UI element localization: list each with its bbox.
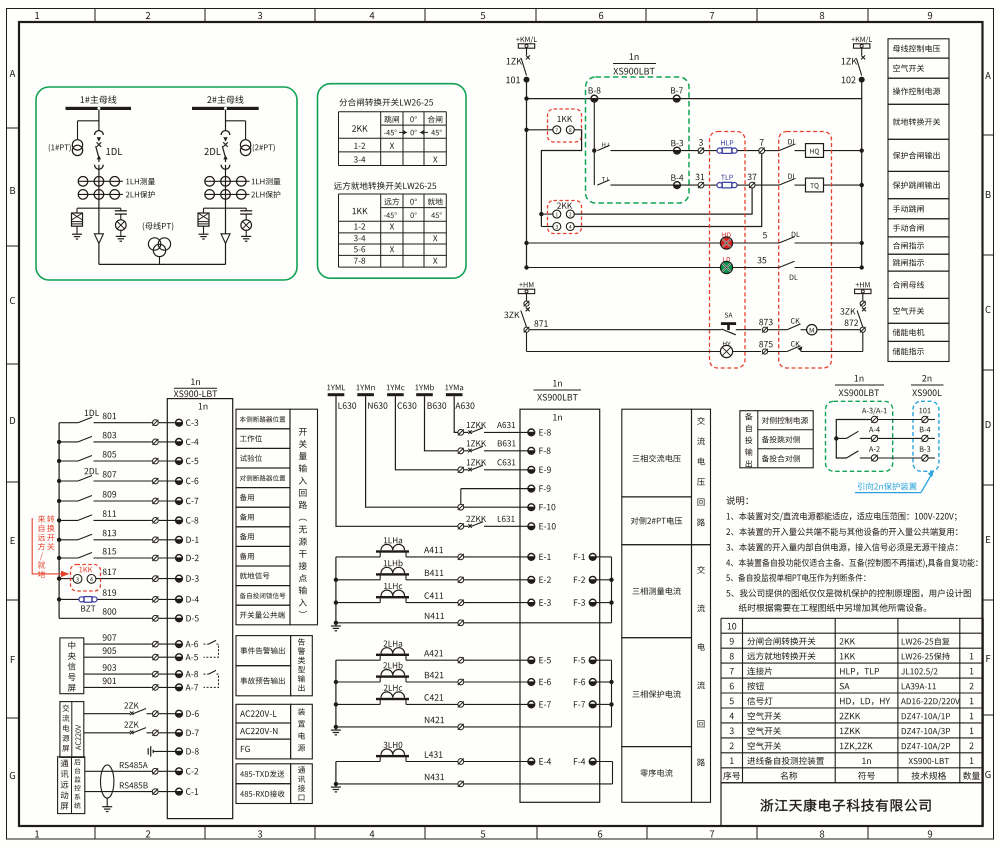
device header 2n XS900L <box>922 375 931 382</box>
row F-9 (N630 branch) <box>461 488 528 490</box>
CT 1LHa <box>384 537 402 543</box>
node 3 <box>680 150 698 152</box>
AC circuit label boxes <box>622 409 692 497</box>
comm row RS485B -> C-1 <box>85 791 153 793</box>
neutral N411 <box>336 622 458 624</box>
close indicator lamp HD (red) <box>527 242 721 244</box>
node 37 <box>737 184 749 186</box>
top rail <box>527 98 862 100</box>
node 872 <box>845 319 858 326</box>
link TLP <box>704 184 717 186</box>
communication panel box <box>58 757 85 814</box>
shield ellipse and ground <box>101 765 114 798</box>
DI row 800 -> D-5 <box>103 608 117 615</box>
terminal B-4 <box>671 175 683 181</box>
drawout breaker 1DL <box>95 131 104 135</box>
F-side returns group2 <box>574 657 585 663</box>
power supply label boxes <box>236 704 291 723</box>
DI row 805 -> C-5 <box>103 451 116 458</box>
terminal B-7 <box>671 87 683 93</box>
MCB 1ZKK row B631 <box>425 396 458 451</box>
F-side returns group1 <box>574 554 585 560</box>
CT 2LHb <box>383 662 402 669</box>
bottom ruler <box>94 826 96 839</box>
wire 2KK pin4 to node 7 <box>574 154 761 227</box>
feeder arrow to load <box>221 234 230 244</box>
terminal box XS900-LBT <box>167 399 232 819</box>
DI row 817 -> D-3 <box>103 569 117 576</box>
link HLP <box>704 150 717 152</box>
row A-2 to B-3 <box>869 446 880 452</box>
ATS contacts (green dashed) <box>826 401 893 471</box>
fuse link +KM/L <box>851 36 872 43</box>
PT bar 1YMa <box>445 385 463 391</box>
PT branch <box>78 120 99 122</box>
comm port label boxes <box>236 764 291 784</box>
table 2KK <box>339 111 447 113</box>
terminal B-8 <box>589 87 601 93</box>
motor M <box>807 325 817 335</box>
ATS output label box <box>740 411 813 468</box>
red dashed group: links and lamps <box>710 132 746 369</box>
feeder arrow to load <box>94 234 103 244</box>
terminal B-3 <box>671 140 683 146</box>
arrester + live-display branch <box>77 207 121 209</box>
notes <box>726 496 747 505</box>
left rail group1 <box>335 557 337 623</box>
BOM row 7 <box>730 668 734 674</box>
charge indicator HY row <box>527 351 721 353</box>
node 7 <box>737 150 759 152</box>
SA row wire <box>529 329 721 331</box>
PT bar 1YML <box>327 385 345 391</box>
green box: transfer switch tables <box>318 84 467 279</box>
BOM row 4 <box>729 713 733 719</box>
comm row RS485A -> C-2 <box>85 770 153 772</box>
fuse link +HM <box>856 282 870 287</box>
central signal panel box <box>60 638 84 694</box>
red dashed group: DL aux contacts and coils <box>779 132 832 369</box>
dashed output contact A-8/A-7 <box>204 673 209 675</box>
top ruler <box>94 9 96 23</box>
signal row 907 -> A-6 <box>84 643 152 645</box>
AC supply row 2ZK -> D-7 <box>84 732 130 734</box>
node 875 <box>759 341 772 348</box>
left ruler <box>7 127 20 129</box>
row A-3/A-1 to 101 <box>862 407 887 414</box>
remote/local switch 1KK contacts 3-4 <box>71 565 101 592</box>
CT 2LHc <box>384 685 403 691</box>
feeder wire <box>225 110 227 131</box>
BOM row 6 <box>730 683 734 690</box>
fuse link +HM <box>519 282 533 287</box>
drawout breaker 2DL <box>221 131 230 135</box>
trip indicator lamp LD (green) <box>527 267 721 269</box>
neutral N421 <box>336 726 458 728</box>
contact CK (charged) <box>791 318 800 323</box>
bus bar 1#主母线 <box>81 95 117 103</box>
feeder wire <box>98 110 100 131</box>
pushbutton SA <box>725 313 733 318</box>
bus bar 2#主母线 <box>207 95 243 103</box>
DI row 811 -> C-8 <box>103 510 116 517</box>
right ruler <box>983 134 994 136</box>
signal row 905 -> A-5 <box>84 656 152 658</box>
DI row 807 -> C-6 <box>103 471 117 478</box>
BOM row 5 <box>730 698 734 705</box>
wire 1KK pin8 to 2KK common <box>541 130 581 227</box>
table 1KK <box>339 193 447 195</box>
BOM row 9 <box>730 638 734 645</box>
row E-10 (L630 via 2ZKK) <box>336 396 458 526</box>
table title LW26-25 remote/local <box>334 182 436 190</box>
row A-4 to B-4 <box>869 427 880 432</box>
AC power panel box <box>60 702 84 758</box>
MCB 1ZKK row C631 <box>395 396 457 470</box>
capacitor + lamp <box>245 208 247 211</box>
device header 1n XS900-LBT <box>191 379 200 385</box>
node 31 <box>680 184 698 186</box>
right bus <box>861 82 863 268</box>
contact HJ (close relay) <box>602 143 608 147</box>
company title block <box>721 783 983 826</box>
DI row 813 -> D-1 <box>103 530 116 537</box>
node 873 <box>759 319 772 326</box>
relay coil HQ <box>806 144 824 158</box>
BOM row 1 <box>730 758 734 764</box>
arrester + live-display branch <box>204 207 247 209</box>
DI row 815 -> D-2 <box>103 548 116 555</box>
left rail <box>526 82 528 268</box>
capacitor + lamp <box>120 208 122 211</box>
arrows in header <box>399 130 406 134</box>
contact CK (NC with flag) <box>791 341 800 346</box>
PT bar 1YMb <box>415 384 434 390</box>
PT bar 1YMn <box>356 385 374 391</box>
contact label 1DL <box>85 410 99 416</box>
DI row 819 -> D-4 <box>103 589 116 596</box>
DI row 803 -> C-4 <box>103 432 116 439</box>
DI row 809 -> C-7 <box>103 491 116 498</box>
CT 3LH0 <box>383 742 402 748</box>
CT 2LHa <box>384 640 403 646</box>
BOM row 10 <box>728 623 737 630</box>
signal row 903 -> A-8 <box>84 673 152 675</box>
neutral N431 <box>336 783 458 785</box>
CT rings <box>205 177 215 187</box>
MCB 1ZKK row A631 <box>454 396 458 432</box>
link BZT <box>79 597 84 602</box>
row F-10 (N630) <box>366 396 458 507</box>
fuse link +KM/L <box>516 36 537 43</box>
BOM row 2 <box>730 743 734 750</box>
BOM row 8 <box>730 653 734 660</box>
left rail group2 <box>335 660 337 727</box>
bottom tie wire <box>99 263 226 265</box>
table title LW26-25 close/open <box>339 98 433 106</box>
note: to 2n protection device <box>858 482 917 490</box>
green box: primary one-line diagram <box>36 87 297 280</box>
switch 2KK (close/trip) contacts 1-4 <box>548 201 582 234</box>
signal row 901 -> A-7 <box>84 686 152 688</box>
FG ground row D-8 <box>147 748 149 754</box>
alarm output label boxes <box>236 636 291 666</box>
device header 1n XS900LBT (ATS) <box>855 375 864 381</box>
PT branch <box>226 120 246 122</box>
function label column (right) <box>888 39 949 58</box>
to 2n device terminals (blue dashed) <box>913 401 939 471</box>
BOM row 序号 <box>723 772 740 780</box>
contact label 2DL <box>84 468 99 474</box>
DI group tall box <box>290 409 318 625</box>
BOM row 3 <box>730 728 734 735</box>
contact TJ (trip relay) <box>602 177 608 181</box>
contact DL (aux, trip) <box>755 184 779 186</box>
red note: from remote/local switch <box>38 515 46 577</box>
contact DL (aux, close) <box>765 150 779 152</box>
device 1n XS900LBT terminal group (green dashed) <box>586 77 690 203</box>
DI function label boxes <box>236 409 290 429</box>
device header 1n XS900LBT <box>553 380 562 386</box>
PT bar 1YMc <box>387 385 405 391</box>
bill of materials table <box>721 617 983 619</box>
switch 1KK (remote/local) contacts 7-8 <box>548 109 582 142</box>
CT rings <box>78 177 88 187</box>
dashed output contact A-6/A-5 <box>204 643 209 645</box>
DI left rail <box>58 423 60 619</box>
wire 2KK pin2 to node 37 <box>574 188 752 214</box>
relay coil TQ <box>806 178 824 192</box>
bus PT (3-winding) <box>143 222 174 231</box>
CT 1LHc <box>384 583 402 589</box>
CT 1LHb <box>384 560 403 567</box>
AC supply row 2ZK -> D-6 <box>84 713 130 715</box>
terminal box <box>520 409 600 802</box>
DI row 801 -> C-3 <box>103 413 116 420</box>
